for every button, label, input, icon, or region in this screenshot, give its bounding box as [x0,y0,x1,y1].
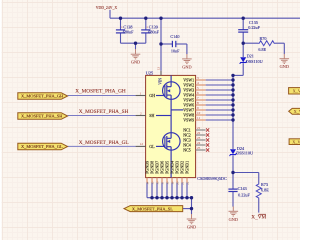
svg-text:VDD_24V_X: VDD_24V_X [96,6,118,10]
svg-text:21: 21 [197,126,201,130]
svg-text:15: 15 [150,181,154,185]
svg-text:X_MOSFET_PHA_GL: X_MOSFET_PHA_GL [21,144,63,149]
svg-text:SH: SH [149,113,154,118]
svg-text:GND: GND [182,64,191,69]
svg-text:X_VM: X_VM [251,214,266,220]
svg-text:VSW9: VSW9 [183,117,194,122]
svg-text:0.22uF: 0.22uF [248,25,260,30]
svg-text:13: 13 [157,67,161,71]
svg-text:X_MOSFET_PHA_GH: X_MOSFET_PHA_GH [21,94,64,99]
svg-text:19: 19 [170,181,174,185]
svg-text:X_V: X_V [293,89,300,94]
svg-text:680nF: 680nF [148,29,159,34]
svg-text:10nF: 10nF [171,48,180,53]
svg-text:X_MOSFET_PHA_SH: X_MOSFET_PHA_SH [79,109,129,115]
svg-text:GL: GL [149,144,155,149]
svg-text:22: 22 [185,181,189,185]
svg-text:U25: U25 [146,71,153,76]
svg-text:CSD88599Q5DC: CSD88599Q5DC [197,176,227,181]
svg-text:20: 20 [175,181,179,185]
svg-text:12: 12 [140,142,144,146]
svg-text:X_MOSFET_PHA_GL: X_MOSFET_PHA_GL [79,140,129,146]
svg-text:GND: GND [229,217,238,222]
svg-text:16: 16 [155,181,159,185]
svg-text:GND: GND [187,225,196,230]
svg-text:C143: C143 [238,186,247,191]
svg-text:21: 21 [180,181,184,185]
svg-text:23: 23 [197,136,201,140]
svg-text:GND: GND [280,64,289,69]
svg-text:X_MOSFET_PHA_GH: X_MOSFET_PHA_GH [75,89,126,95]
svg-text:GH: GH [149,93,155,98]
svg-text:680nF: 680nF [123,29,134,34]
svg-text:X_MOSFET_PHA_SH: X_MOSFET_PHA_SH [21,114,63,119]
svg-text:DSS110U: DSS110U [236,150,253,155]
svg-text:10: 10 [197,111,201,115]
svg-text:X_V: X_V [294,109,300,114]
svg-text:14: 14 [145,181,149,185]
svg-text:0.22uF: 0.22uF [238,193,250,198]
svg-text:C140: C140 [170,34,179,39]
svg-text:25: 25 [197,146,201,150]
svg-text:PGND1: PGND1 [185,161,190,174]
svg-text:6.8E: 6.8E [261,187,269,192]
svg-text:VIN: VIN [159,78,163,85]
svg-text:X_V: X_V [292,140,300,145]
svg-text:22: 22 [197,131,201,135]
svg-text:11: 11 [197,116,201,120]
svg-text:NC5: NC5 [183,147,191,152]
svg-text:D21: D21 [247,53,254,58]
svg-text:18: 18 [165,181,169,185]
svg-text:R70: R70 [260,36,267,41]
svg-text:24: 24 [197,141,201,145]
svg-text:17: 17 [160,181,164,185]
svg-text:GND: GND [131,60,140,65]
svg-text:DSS110U: DSS110U [246,59,263,64]
svg-text:X_MOSFET_PHA_SL: X_MOSFET_PHA_SL [132,206,173,211]
svg-text:6.8E: 6.8E [258,47,266,52]
